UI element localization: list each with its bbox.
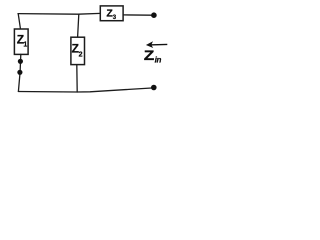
wire below Z1 to bottom-left corner [18, 54, 20, 91]
wire Z3 right to top terminal [123, 14, 152, 16]
wire Z2 bottom (to bottom rail) [76, 65, 78, 92]
svg-text:1: 1 [23, 42, 27, 49]
svg-text:in: in [155, 56, 162, 65]
wire bottom rail [18, 88, 151, 92]
label Zin [144, 48, 162, 65]
node terminal bottom right [151, 85, 157, 91]
svg-text:2: 2 [79, 52, 83, 59]
svg-text:Z: Z [144, 48, 155, 63]
wire Z2 top (from top rail junction) [78, 14, 79, 37]
wire top rail [18, 12, 100, 15]
node dot a (upper, left branch) [18, 59, 23, 64]
impedance Z3 [100, 6, 123, 21]
node dot b (lower, left branch) [17, 70, 22, 75]
wire left vertical (top corner to Z1) [18, 14, 20, 30]
arrow Zin (pointing left) [146, 41, 167, 48]
impedance Z1 [14, 29, 28, 54]
node terminal top right [151, 12, 157, 18]
impedance Z2 [71, 37, 85, 64]
